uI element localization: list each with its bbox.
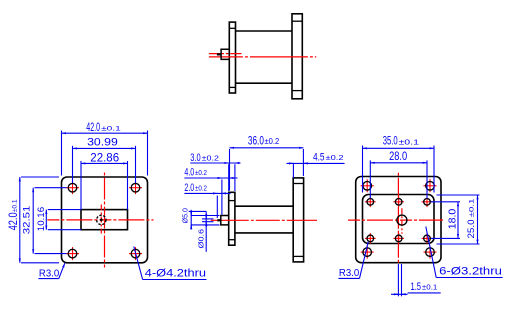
svg-text:±0.2: ±0.2: [265, 137, 280, 146]
svg-text:±0.1: ±0.1: [101, 125, 121, 132]
right view: outer hole bottom-left: [363, 248, 372, 257]
left view: pin vertical centerline (offset): [100, 205, 102, 234]
svg-text:±0.2: ±0.2: [202, 154, 219, 163]
svg-text:35.0: 35.0: [383, 136, 398, 148]
svg-text:±0.2: ±0.2: [195, 168, 207, 177]
left view: horizontal centerline: [47, 219, 153, 221]
svg-text:3.0: 3.0: [190, 152, 200, 164]
svg-text:42.0: 42.0: [86, 120, 100, 134]
middle view: large flange division lines: [293, 184, 303, 257]
right view: pin vertical centerline (offset): [401, 208, 403, 233]
right view: outer hole top-left: [363, 182, 372, 191]
svg-text:1.5: 1.5: [411, 281, 422, 293]
svg-text:±0.2: ±0.2: [326, 153, 344, 162]
right view: outer flange plate 42x42: [356, 177, 441, 263]
right view: outer hole bottom-right: [426, 248, 435, 257]
middle view: small flange: [229, 192, 235, 245]
svg-text:42.0: 42.0: [6, 212, 20, 230]
svg-text:±0.1: ±0.1: [422, 283, 438, 292]
svg-text:Ø0.6: Ø0.6: [197, 229, 206, 249]
svg-text:Ø5.0: Ø5.0: [180, 208, 189, 223]
right view dimension 35.0±0.1: [363, 146, 435, 193]
svg-text:36.0: 36.0: [248, 134, 264, 148]
left view dimension 30.99: [73, 146, 136, 183]
middle view dimension 3.0±0.2: [190, 163, 240, 191]
top view: body: [236, 31, 293, 83]
svg-text:28.0: 28.0: [389, 149, 407, 163]
right view dimension 18.0: [431, 202, 460, 239]
left view: hole bottom-left: [68, 249, 77, 258]
left view dimension 42.0±0.1 top: [62, 131, 148, 176]
middle view dimension 4.0±0.2: [184, 178, 237, 215]
svg-text:4-Ø4.2thru: 4-Ø4.2thru: [145, 267, 206, 279]
svg-text:22.86: 22.86: [90, 151, 119, 165]
left view dimension 32.51: [33, 188, 66, 254]
right view dimension 25.0±0.1: [437, 195, 480, 244]
middle view: body: [235, 206, 293, 233]
left view: pin dot: [100, 219, 103, 222]
right view dimension 1.5±0.1: [391, 264, 441, 296]
right view: horizontal centerline: [348, 219, 443, 221]
svg-text:32.51: 32.51: [22, 206, 33, 235]
top view: pin centerline (offset): [209, 53, 244, 55]
middle view dimension Ø0.6: [189, 211, 214, 251]
middle view dimension 36.0±0.2: [230, 148, 304, 191]
svg-text:R3.0: R3.0: [39, 267, 59, 279]
svg-text:4.5: 4.5: [313, 151, 325, 163]
svg-text:18.0: 18.0: [448, 208, 459, 229]
right view: outer hole crosshairs: [361, 179, 437, 258]
svg-text:±0.1: ±0.1: [12, 199, 19, 212]
left view: hole top-left: [68, 183, 77, 192]
top view: small flange corner division lines: [229, 28, 235, 87]
right view: center circle Ø5.0: [397, 215, 407, 225]
svg-text:±0.2: ±0.2: [195, 184, 207, 193]
right view: small hole crosshairs: [365, 197, 432, 244]
top view: coax pin housing: [221, 49, 229, 59]
middle view: large flange: [293, 178, 303, 262]
left view: vertical centerline: [104, 173, 106, 268]
left view dimension 10.16: [46, 210, 81, 230]
svg-text:10.16: 10.16: [36, 207, 46, 231]
left view dimension 42.0±0.1 left vertical: [20, 177, 59, 263]
svg-text:2.0: 2.0: [184, 182, 194, 194]
left view: waveguide aperture rectangle: [81, 210, 128, 230]
middle view dimension Ø5.0: [191, 210, 219, 230]
left view: flange plate 42x42: [62, 177, 148, 263]
middle view: small flange division lines: [229, 201, 235, 240]
left view: hole top-right: [131, 183, 140, 192]
middle view: pin tip: [217, 219, 221, 221]
left view dimension 22.86: [81, 161, 128, 210]
right view: inner flange plate 35x25: [363, 195, 435, 244]
middle view dimension 4.5±0.2: [287, 163, 345, 178]
svg-text:±0.1: ±0.1: [399, 137, 420, 146]
right view dimension 28.0: [370, 160, 427, 198]
middle view: main centerline: [211, 219, 317, 221]
svg-text:25.0: 25.0: [466, 220, 476, 239]
top view: large flange (42 plate edge): [292, 14, 302, 99]
svg-text:±0.1: ±0.1: [469, 198, 476, 217]
right view: outer hole top-right: [426, 182, 435, 191]
left view: hidden circle Ø5.0: [97, 215, 106, 224]
left view: hole crosshairs: [66, 181, 142, 260]
middle view: coax pin housing: [221, 216, 229, 225]
middle view dimension 2.0±0.2: [184, 193, 230, 218]
left view: hole bottom-right: [131, 249, 140, 258]
right view: small holes 6x: [367, 199, 430, 242]
top view: main centerline: [209, 56, 316, 58]
svg-text:R3.0: R3.0: [339, 267, 359, 279]
svg-text:4.0: 4.0: [184, 167, 194, 179]
right view: vertical centerline: [397, 173, 399, 263]
top view: pin tip: [217, 53, 221, 55]
top view: large flange corner division lines: [292, 21, 302, 90]
svg-text:6-Ø3.2thru: 6-Ø3.2thru: [439, 266, 502, 278]
top view: small flange (35x25 plate edge): [229, 22, 235, 93]
svg-text:30.99: 30.99: [87, 137, 118, 149]
